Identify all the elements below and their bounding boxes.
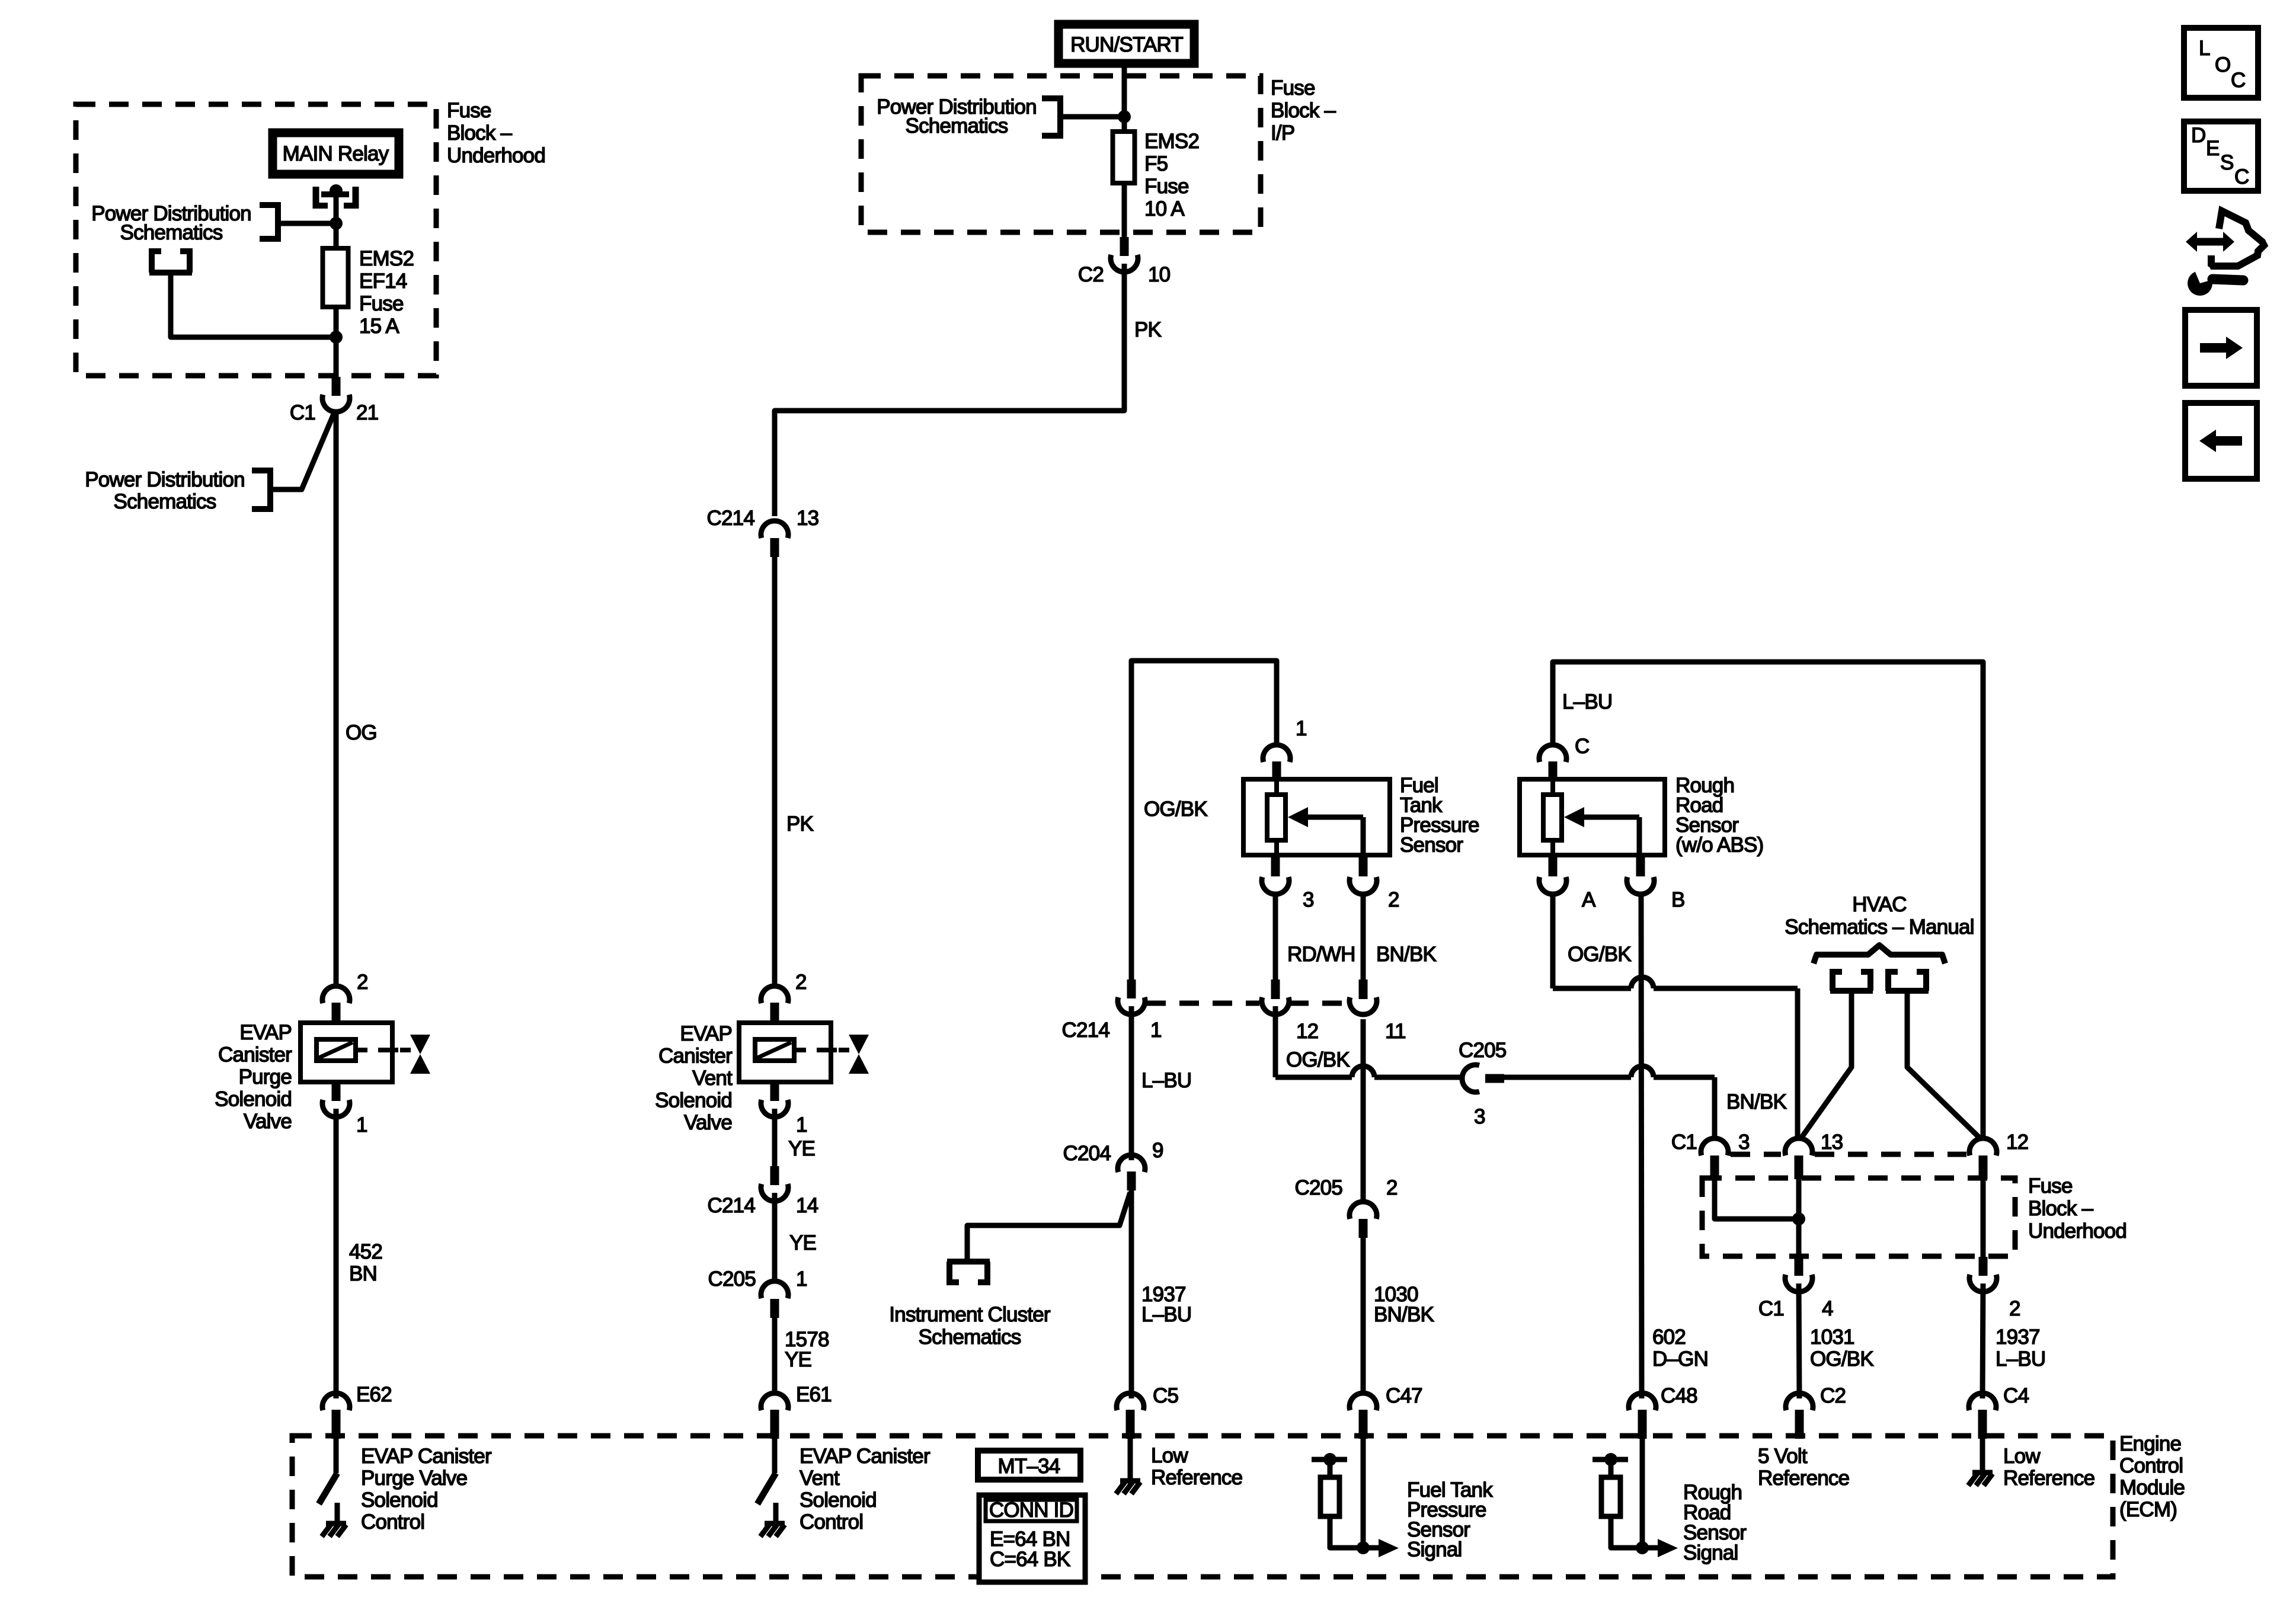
connector purge pin 2 (tick) bbox=[332, 1003, 341, 1022]
connector RRS pin A (cup) bbox=[1539, 877, 1566, 894]
wire C1-3 inside fusebox bbox=[1715, 1179, 1799, 1219]
svg-text:Vent: Vent bbox=[800, 1467, 840, 1490]
wire fuse F5 to connector C2 bbox=[1122, 183, 1127, 243]
svg-text:C2: C2 bbox=[1078, 263, 1104, 286]
svg-text:2: 2 bbox=[2009, 1297, 2020, 1320]
svg-text:13: 13 bbox=[1821, 1131, 1843, 1154]
svg-text:11: 11 bbox=[1385, 1020, 1406, 1043]
svg-text:(ECM): (ECM) bbox=[2119, 1498, 2177, 1521]
label C2 bbox=[1078, 263, 1104, 286]
connector RRS pin B (tick) bbox=[1636, 855, 1645, 876]
connector C2 10 (cup) bbox=[1111, 255, 1138, 272]
svg-text:C2: C2 bbox=[1820, 1384, 1846, 1407]
label C1 (3) bbox=[1671, 1131, 1697, 1154]
node fusebox junction bbox=[1792, 1212, 1805, 1225]
wire L-BU C214-1 to C204-9 bbox=[1129, 1006, 1134, 1160]
fuse F5 EMS2 10A bbox=[1113, 132, 1135, 183]
label 12 (fuse block) bbox=[2006, 1131, 2028, 1154]
svg-text:3: 3 bbox=[1738, 1131, 1750, 1154]
wire 13 through fusebox bbox=[1796, 1179, 1802, 1259]
svg-text:PK: PK bbox=[786, 812, 814, 836]
reference receptacle (instrument cluster) bbox=[947, 1262, 990, 1285]
ground (low reference C4) bbox=[1968, 1473, 1993, 1486]
svg-text:OG/BK: OG/BK bbox=[1286, 1048, 1350, 1071]
connector vent pin 1 (tick) bbox=[770, 1082, 779, 1101]
svg-text:Signal: Signal bbox=[1683, 1541, 1738, 1564]
connector C2 (tick) bbox=[1795, 1410, 1804, 1439]
svg-text:1937: 1937 bbox=[1996, 1326, 2040, 1349]
label C204 bbox=[1063, 1142, 1111, 1165]
connector 12 (tick) bbox=[1979, 1156, 1988, 1179]
ECM switch (vent control) bbox=[757, 1439, 776, 1523]
wire OG/BK A to conn13 bbox=[1553, 895, 1798, 1140]
svg-text:E61: E61 bbox=[796, 1383, 832, 1406]
label OG/BK (A) bbox=[1568, 943, 1631, 966]
svg-text:RD/WH: RD/WH bbox=[1287, 943, 1355, 966]
svg-text:Purge Valve: Purge Valve bbox=[361, 1467, 467, 1490]
node fuse output junction bbox=[330, 331, 343, 344]
label YE (mid) bbox=[789, 1231, 816, 1254]
label 452 BN bbox=[349, 1240, 382, 1285]
svg-text:Control: Control bbox=[800, 1510, 863, 1534]
connector C2 (dome) bbox=[1786, 1393, 1813, 1410]
connector E61 (tick) bbox=[770, 1410, 779, 1439]
icon wrench bbox=[2188, 266, 2243, 296]
svg-text:C: C bbox=[2231, 69, 2245, 92]
label C2 (ECM) bbox=[1820, 1384, 1846, 1407]
svg-text:Fuse: Fuse bbox=[447, 99, 491, 122]
connector C1 21 (cup) bbox=[322, 395, 350, 412]
label 2 (FTP) bbox=[1388, 888, 1399, 911]
svg-text:C205: C205 bbox=[1459, 1039, 1506, 1062]
wire 1031 OG/BK to C2 bbox=[1799, 1283, 1799, 1398]
bracket to power distribution schematics bbox=[260, 202, 278, 242]
svg-text:L–BU: L–BU bbox=[1141, 1069, 1191, 1092]
label OG bbox=[346, 721, 377, 744]
svg-text:Underhood: Underhood bbox=[2028, 1219, 2126, 1243]
svg-text:602: 602 bbox=[1652, 1326, 1686, 1349]
solenoid EVAP canister purge valve bbox=[300, 1023, 411, 1082]
connector FTP pin 1 (tick) bbox=[1272, 761, 1281, 780]
svg-text:D–GN: D–GN bbox=[1652, 1347, 1708, 1371]
label C48 bbox=[1661, 1384, 1697, 1407]
wire 12 through fusebox bbox=[1981, 1179, 1986, 1259]
label Fuel Tank Pressure Sensor bbox=[1400, 774, 1479, 857]
wire D-GN B to C48 bbox=[1641, 895, 1642, 1398]
svg-text:Sensor: Sensor bbox=[1400, 834, 1463, 857]
label C214 (13) bbox=[707, 507, 755, 530]
svg-text:10 A: 10 A bbox=[1144, 197, 1185, 220]
label 2 (C205-2) bbox=[1386, 1176, 1398, 1199]
svg-text:C47: C47 bbox=[1386, 1384, 1422, 1407]
HVAC receptacle left bbox=[1830, 969, 1873, 991]
connector 12 (dome) bbox=[1969, 1138, 1997, 1156]
svg-text:1: 1 bbox=[356, 1113, 367, 1137]
svg-text:C204: C204 bbox=[1063, 1142, 1111, 1165]
connector 2 (tick) bbox=[1979, 1257, 1988, 1276]
svg-text:Fuse: Fuse bbox=[1144, 175, 1189, 198]
fuse EF14 EMS2 15A bbox=[323, 248, 348, 307]
svg-text:Schematics: Schematics bbox=[919, 1326, 1021, 1349]
fuse block underhood (dashed box) bbox=[76, 104, 436, 376]
inline connector dashes C214 bbox=[1146, 1001, 1348, 1006]
connector 13 (tick) bbox=[1795, 1156, 1803, 1179]
hop over RRS-B wire (lower) bbox=[1631, 1066, 1654, 1077]
label 9 bbox=[1152, 1139, 1163, 1162]
icon vehicle with arrows bbox=[2186, 211, 2264, 266]
svg-text:EMS2: EMS2 bbox=[1144, 130, 1199, 153]
svg-text:E: E bbox=[2206, 137, 2220, 160]
svg-text:EMS2: EMS2 bbox=[359, 247, 414, 270]
connector C214 13 (dome) bbox=[761, 521, 788, 538]
power feed RUN/START box bbox=[1059, 24, 1194, 63]
svg-text:EVAP: EVAP bbox=[239, 1021, 292, 1044]
ground (low reference C5) bbox=[1116, 1481, 1140, 1494]
svg-text:C214: C214 bbox=[708, 1194, 756, 1217]
label EVAP Canister Purge Solenoid Valve bbox=[215, 1021, 292, 1133]
label E62 bbox=[356, 1383, 392, 1406]
label C214 (1) bbox=[1062, 1019, 1110, 1042]
HVAC receptacle right bbox=[1886, 969, 1929, 991]
label Low Reference (C5) bbox=[1151, 1444, 1242, 1489]
connector E62 (tick) bbox=[332, 1410, 341, 1439]
connector purge pin 2 (dome) bbox=[322, 986, 350, 1003]
svg-text:Control: Control bbox=[361, 1510, 424, 1534]
ground (vent control) bbox=[760, 1523, 785, 1537]
svg-text:MAIN Relay: MAIN Relay bbox=[283, 142, 389, 165]
svg-text:Solenoid: Solenoid bbox=[800, 1489, 877, 1512]
wire receptacle to fuse output bbox=[171, 273, 333, 337]
connector C214 14 (tick) bbox=[770, 1166, 779, 1185]
connector FTP pin 1 (dome) bbox=[1263, 745, 1290, 762]
sensor rough road (box) bbox=[1520, 779, 1665, 855]
svg-text:BN: BN bbox=[349, 1262, 377, 1285]
node F5 input junction bbox=[1118, 110, 1131, 123]
ground (purge control) bbox=[322, 1523, 346, 1537]
svg-text:O: O bbox=[2215, 53, 2230, 76]
connector C214 13 (tick) bbox=[770, 538, 779, 557]
svg-text:Canister: Canister bbox=[218, 1044, 292, 1067]
wire FTP loop (pin1 feed) bbox=[1131, 661, 1277, 981]
svg-text:Fuse: Fuse bbox=[1271, 76, 1315, 100]
wire bracket to relay wire bbox=[281, 221, 336, 226]
fuse block underhood small (dashed box) bbox=[1702, 1178, 2015, 1256]
ECM pullup resistor (C47) bbox=[1312, 1453, 1359, 1548]
label B bbox=[1671, 888, 1685, 911]
wire fuse to connector C1 bbox=[334, 307, 339, 380]
valve symbol (vent) bbox=[849, 1035, 869, 1074]
svg-text:Schematics – Manual: Schematics – Manual bbox=[1785, 916, 1974, 939]
label 10 bbox=[1148, 263, 1171, 286]
label PK (upper) bbox=[1134, 318, 1162, 341]
sensor fuel tank pressure (box) bbox=[1243, 779, 1390, 855]
connector C214 14 (cup) bbox=[761, 1184, 788, 1201]
inline connector dashes C1 row bbox=[1731, 1152, 1966, 1157]
label 1 (C205) bbox=[796, 1267, 807, 1291]
connector C214 1 (tick) bbox=[1127, 980, 1136, 998]
connector C4 (dome) bbox=[1969, 1393, 1996, 1410]
label pin 1 (vent) bbox=[796, 1113, 807, 1137]
svg-text:Control: Control bbox=[2119, 1454, 2183, 1477]
connector C205 3 (cup) bbox=[1462, 1065, 1479, 1092]
svg-text:15 A: 15 A bbox=[359, 315, 399, 338]
svg-text:Schematics: Schematics bbox=[120, 221, 223, 244]
svg-text:PK: PK bbox=[1134, 318, 1162, 341]
wire L-BU 1937 to C5 bbox=[1129, 1190, 1134, 1398]
svg-text:Valve: Valve bbox=[684, 1111, 732, 1134]
connector 13 (dome) bbox=[1785, 1138, 1812, 1156]
wire bracket to F5 wire bbox=[1063, 114, 1124, 120]
label 1937 L-BU (right) bbox=[1996, 1326, 2045, 1371]
svg-text:C: C bbox=[2234, 165, 2249, 188]
label Low Reference (C4) bbox=[2003, 1445, 2094, 1490]
RRS wiper arrow bbox=[1564, 807, 1639, 855]
svg-text:C205: C205 bbox=[708, 1267, 756, 1291]
connector RRS pin C (tick) bbox=[1549, 761, 1558, 780]
label C (RRS) bbox=[1575, 735, 1589, 758]
svg-text:C1: C1 bbox=[1758, 1297, 1784, 1320]
wire BN/BK C205-2 segment bbox=[1361, 1019, 1366, 1202]
label 14 bbox=[796, 1194, 818, 1217]
label C5 bbox=[1153, 1384, 1178, 1407]
label Rough Road Sensor (w/o ABS) bbox=[1675, 774, 1763, 857]
label pin 2 (purge) bbox=[357, 971, 368, 994]
label Power Distribution Schematics (C1 tap) bbox=[85, 468, 245, 513]
label 3 (C1) bbox=[1738, 1131, 1750, 1154]
wire 1937 L-BU to C4 bbox=[1982, 1283, 1983, 1398]
svg-text:Reference: Reference bbox=[1151, 1466, 1242, 1489]
connector RRS pin B (cup) bbox=[1627, 877, 1654, 894]
svg-text:Low: Low bbox=[1151, 1444, 1188, 1467]
relay K1 MAIN Relay box bbox=[273, 133, 399, 174]
note box CONN ID bbox=[979, 1495, 1085, 1582]
svg-text:F5: F5 bbox=[1144, 152, 1168, 175]
svg-text:Schematics: Schematics bbox=[114, 490, 216, 513]
wire YE C214-14 to C205-1 bbox=[772, 1193, 778, 1281]
svg-text:EVAP Canister: EVAP Canister bbox=[361, 1445, 492, 1468]
connector C48 (tick) bbox=[1638, 1410, 1647, 1439]
label 1 (FTP pin1) bbox=[1296, 717, 1307, 740]
svg-text:C1: C1 bbox=[1671, 1131, 1697, 1154]
svg-text:Block –: Block – bbox=[1271, 99, 1336, 122]
svg-text:BN/BK: BN/BK bbox=[1376, 943, 1436, 966]
svg-text:13: 13 bbox=[797, 507, 818, 530]
svg-text:Fuse: Fuse bbox=[359, 292, 404, 315]
connector C205 3 (tick) bbox=[1485, 1074, 1504, 1083]
label 3 (C205) bbox=[1474, 1105, 1485, 1128]
node power distribution tap bbox=[330, 217, 343, 230]
svg-text:1: 1 bbox=[1150, 1019, 1162, 1042]
label 3 bbox=[1303, 888, 1314, 911]
wire OG/BK C214-12 to C1-3 bbox=[1275, 1006, 1715, 1140]
wire HVAC left funnel bbox=[1801, 991, 1851, 1139]
label 1578 YE bbox=[785, 1328, 829, 1371]
svg-text:Vent: Vent bbox=[692, 1067, 733, 1090]
svg-text:1: 1 bbox=[1296, 717, 1307, 740]
label 602 D-GN bbox=[1652, 1326, 1708, 1371]
label E61 bbox=[796, 1383, 832, 1406]
wire RRS loop (pin C feed) bbox=[1553, 662, 1983, 1140]
wire relay to fuse EF14 bbox=[334, 193, 339, 248]
label 13 (fuse block) bbox=[1821, 1131, 1843, 1154]
wire HVAC right funnel bbox=[1907, 991, 1981, 1139]
label RD/WH bbox=[1287, 943, 1355, 966]
RRS potentiometer bbox=[1543, 779, 1562, 855]
wire 1030 BN/BK to C47 bbox=[1361, 1238, 1366, 1394]
connector 2 (cup) bbox=[1969, 1275, 1997, 1292]
wire 452 BN to ECM bbox=[334, 1109, 339, 1398]
label BN/BK (to C1-3) bbox=[1726, 1090, 1786, 1113]
label L-BU (RRS) bbox=[1562, 690, 1612, 713]
connector C5 (tick) bbox=[1126, 1410, 1135, 1439]
svg-text:(w/o ABS): (w/o ABS) bbox=[1675, 834, 1763, 857]
label C4 (ECM) bbox=[2003, 1384, 2029, 1407]
svg-text:1: 1 bbox=[796, 1113, 807, 1137]
svg-text:5 Volt: 5 Volt bbox=[1758, 1445, 1808, 1468]
FTP potentiometer bbox=[1267, 779, 1285, 855]
svg-text:CONN ID: CONN ID bbox=[989, 1499, 1073, 1522]
svg-text:Power Distribution: Power Distribution bbox=[85, 468, 245, 491]
connector C1 4 (tick) bbox=[1795, 1257, 1803, 1276]
label 2 (fuse block) bbox=[2009, 1297, 2020, 1320]
wire bracket diagonal to C1 wire bbox=[273, 411, 335, 489]
svg-text:Low: Low bbox=[2003, 1445, 2041, 1468]
svg-text:EVAP: EVAP bbox=[680, 1022, 732, 1045]
svg-text:C48: C48 bbox=[1661, 1384, 1697, 1407]
label 1031 OG/BK bbox=[1810, 1326, 1873, 1371]
svg-text:10: 10 bbox=[1148, 263, 1171, 286]
label EVAP Canister Vent Solenoid Control bbox=[800, 1445, 930, 1534]
reference receptacle (power distribution) bbox=[149, 248, 192, 273]
svg-text:9: 9 bbox=[1152, 1139, 1163, 1162]
connector C205 1 (tick) bbox=[770, 1299, 779, 1318]
svg-text:Solenoid: Solenoid bbox=[655, 1089, 732, 1112]
svg-text:1: 1 bbox=[796, 1267, 807, 1291]
wire BN/BK pin2 to C214-11 bbox=[1361, 895, 1366, 982]
label BN/BK (pin2) bbox=[1376, 943, 1436, 966]
connector purge pin 1 (cup) bbox=[322, 1100, 350, 1117]
svg-text:D: D bbox=[2191, 124, 2205, 147]
label EMS2 EF14 Fuse 15 A bbox=[359, 247, 414, 338]
wire PK elbow to C214 bbox=[775, 264, 1124, 516]
connector C214 11 (tick) bbox=[1359, 980, 1368, 999]
svg-text:C1: C1 bbox=[290, 401, 315, 424]
FTP wiper arrow bbox=[1288, 807, 1363, 855]
connector C1 3 (dome) bbox=[1701, 1138, 1728, 1156]
svg-text:Fuse: Fuse bbox=[2028, 1174, 2073, 1198]
wire C47 signal bbox=[1361, 1439, 1366, 1548]
svg-text:EF14: EF14 bbox=[359, 270, 407, 293]
icon box arrow left bbox=[2185, 403, 2257, 479]
svg-text:C4: C4 bbox=[2003, 1384, 2029, 1407]
svg-text:Solenoid: Solenoid bbox=[215, 1088, 292, 1111]
svg-text:Block –: Block – bbox=[2028, 1197, 2094, 1220]
label A bbox=[1582, 888, 1596, 911]
svg-text:C5: C5 bbox=[1153, 1384, 1178, 1407]
wire C48 signal bbox=[1640, 1439, 1645, 1548]
wire PK down to vent valve bbox=[772, 556, 778, 987]
svg-text:L: L bbox=[2199, 37, 2210, 60]
connector C214 12 (tick) bbox=[1271, 980, 1280, 999]
label EVAP Canister Vent Solenoid Valve bbox=[655, 1022, 733, 1134]
label 13 bbox=[797, 507, 818, 530]
svg-text:12: 12 bbox=[1296, 1020, 1318, 1043]
connector C1 3 (tick) bbox=[1710, 1156, 1719, 1179]
svg-text:2: 2 bbox=[357, 971, 368, 994]
connector C47 (tick) bbox=[1359, 1410, 1368, 1439]
connector C214 1 (cup) bbox=[1118, 997, 1145, 1014]
wire RUN/START to fuse F5 bbox=[1122, 65, 1127, 132]
note box MT-34 bbox=[978, 1451, 1080, 1480]
connector C4 (tick) bbox=[1978, 1410, 1987, 1439]
svg-text:1031: 1031 bbox=[1810, 1326, 1854, 1349]
hop over BN/BK wire bbox=[1352, 1066, 1374, 1077]
connector RRS pin A (tick) bbox=[1549, 855, 1558, 876]
connector C205 1 (dome) bbox=[761, 1281, 788, 1298]
ECM switch (purge control) bbox=[319, 1439, 337, 1523]
connector C204 9 (tick) bbox=[1127, 1172, 1136, 1190]
bracket to power distribution schematics 2 bbox=[252, 468, 270, 512]
svg-text:2: 2 bbox=[795, 971, 807, 994]
connector vent pin 2 (dome) bbox=[761, 986, 788, 1003]
connector C214 12 (cup) bbox=[1262, 997, 1289, 1014]
svg-text:12: 12 bbox=[2006, 1131, 2028, 1154]
svg-text:C=64 BK: C=64 BK bbox=[990, 1548, 1070, 1571]
label EMS2 F5 Fuse 10 A bbox=[1144, 130, 1199, 220]
svg-text:Valve: Valve bbox=[244, 1110, 292, 1133]
icon box LOC bbox=[2184, 28, 2258, 98]
label Fuse Block - Underhood (right) bbox=[2028, 1174, 2126, 1243]
svg-text:Block –: Block – bbox=[447, 121, 513, 145]
label C47 bbox=[1386, 1384, 1422, 1407]
svg-text:A: A bbox=[1582, 888, 1596, 911]
wire RD/WH pin3 to C214-12 bbox=[1273, 895, 1278, 982]
label Fuse Block - Underhood bbox=[447, 99, 545, 167]
label C1 bbox=[290, 401, 315, 424]
label HVAC Schematics - Manual bbox=[1785, 893, 1974, 939]
connector E62 (dome) bbox=[322, 1393, 350, 1410]
label Rough Road Sensor Signal bbox=[1683, 1481, 1747, 1564]
hop over RRS-B wire (upper) bbox=[1631, 977, 1654, 988]
svg-text:Instrument Cluster: Instrument Cluster bbox=[889, 1303, 1051, 1326]
connector C214 11 (cup) bbox=[1350, 997, 1377, 1014]
svg-text:BN/BK: BN/BK bbox=[1374, 1303, 1434, 1326]
label C205 (1) bbox=[708, 1267, 756, 1291]
label C205 (2) bbox=[1295, 1176, 1342, 1199]
svg-text:4: 4 bbox=[1822, 1297, 1833, 1320]
svg-text:RUN/START: RUN/START bbox=[1070, 33, 1183, 56]
label C205 (3) bbox=[1459, 1039, 1506, 1062]
connector C47 (dome) bbox=[1350, 1393, 1377, 1410]
connector FTP pin 3 (cup) bbox=[1262, 877, 1289, 894]
wire YE pin1 to C214-14 bbox=[772, 1109, 778, 1169]
label 11 bbox=[1385, 1020, 1406, 1043]
svg-text:B: B bbox=[1671, 888, 1685, 911]
svg-text:14: 14 bbox=[796, 1194, 818, 1217]
connector FTP pin 3 (tick) bbox=[1271, 855, 1280, 876]
svg-text:E62: E62 bbox=[356, 1383, 392, 1406]
svg-text:S: S bbox=[2220, 151, 2234, 174]
arrow fuel tank signal bbox=[1363, 1539, 1399, 1557]
svg-text:Underhood: Underhood bbox=[447, 144, 545, 167]
svg-text:L–BU: L–BU bbox=[1562, 690, 1612, 713]
svg-text:Module: Module bbox=[2119, 1476, 2185, 1499]
svg-text:MT–34: MT–34 bbox=[998, 1455, 1060, 1478]
connector E61 (dome) bbox=[761, 1393, 788, 1410]
solenoid EVAP canister vent valve bbox=[739, 1023, 849, 1082]
label L-BU (C214-1) bbox=[1141, 1069, 1191, 1092]
svg-text:OG/BK: OG/BK bbox=[1568, 943, 1631, 966]
